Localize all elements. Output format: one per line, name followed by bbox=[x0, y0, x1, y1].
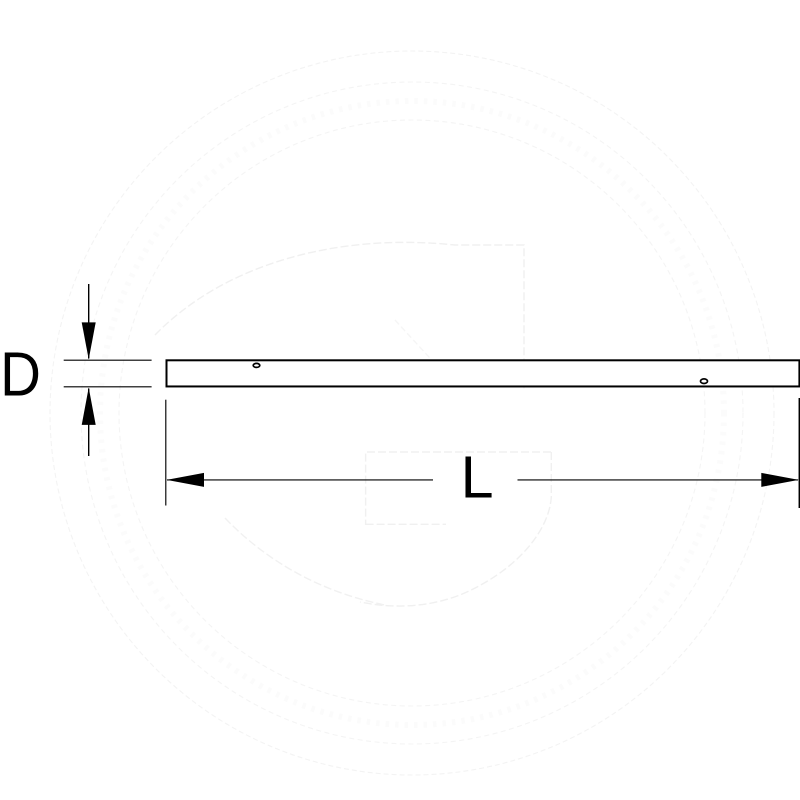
hole right bbox=[701, 379, 708, 384]
L arrowhead left bbox=[167, 473, 204, 487]
D extension line bottom bbox=[64, 386, 152, 388]
D arrow line top bbox=[88, 284, 90, 359]
D arrowhead top bbox=[82, 322, 96, 359]
watermark emblem bracket bbox=[366, 452, 551, 525]
svg-text:D: D bbox=[0, 339, 41, 409]
watermark rim text ring bbox=[100, 101, 724, 725]
L dimension line right segment bbox=[518, 479, 799, 481]
hole left bbox=[253, 363, 260, 367]
watermark emblem top arc bbox=[155, 242, 524, 390]
watermark inner circle bbox=[119, 120, 705, 706]
D arrowhead bottom bbox=[82, 388, 96, 425]
svg-text:L: L bbox=[461, 444, 494, 511]
watermark emblem diagonal bbox=[395, 320, 450, 380]
D extension line top bbox=[64, 359, 152, 361]
L dimension line left segment bbox=[167, 479, 433, 481]
D arrow line bottom bbox=[88, 389, 90, 457]
watermark lower-left arc bbox=[225, 518, 385, 605]
rod body bbox=[167, 360, 800, 386]
watermark middle circle bbox=[81, 82, 743, 744]
L extension line right bbox=[798, 398, 800, 508]
watermark emblem J curve bbox=[360, 452, 551, 606]
L extension line left bbox=[165, 400, 167, 506]
L arrowhead right bbox=[761, 473, 798, 487]
